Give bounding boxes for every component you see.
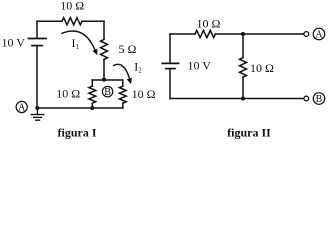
- wire middle resistor top lead: [242, 34, 244, 58]
- wire left 10 ohm top lead: [91, 80, 93, 86]
- svg-text:10 Ω: 10 Ω: [197, 17, 221, 31]
- svg-text:B: B: [316, 94, 323, 105]
- arrow I1 arc: [62, 31, 95, 50]
- wire left rail upper (figura II): [169, 34, 171, 63]
- resistor 10 ohm bottom-left (figura I): [89, 86, 96, 103]
- ground line 3: [36, 119, 40, 121]
- node junction dot top (figura II): [241, 32, 245, 36]
- node B circle (figura II): [313, 93, 325, 105]
- svg-text:10 Ω: 10 Ω: [56, 86, 80, 100]
- node junction dot sub-loop bottom: [90, 106, 94, 110]
- node A circle (figura I): [16, 101, 27, 112]
- node junction dot left-bottom (figura I): [35, 106, 39, 110]
- wire top left segment: [37, 20, 62, 22]
- resistor 10 ohm top (figura I): [62, 18, 82, 25]
- wire sub-loop top bar: [92, 79, 123, 81]
- ground stub: [36, 108, 38, 114]
- node A circle (figura II): [313, 28, 325, 40]
- svg-text:5 Ω: 5 Ω: [119, 42, 137, 56]
- wire middle resistor bottom lead: [242, 77, 244, 98]
- battery V2 short plate: [166, 68, 175, 70]
- svg-text:A: A: [315, 30, 323, 41]
- arrow I2 arc: [114, 64, 130, 78]
- svg-text:figura II: figura II: [227, 126, 271, 140]
- wire top right segment: [82, 20, 104, 22]
- resistor 10 ohm top (figura II): [195, 30, 215, 37]
- battery V1 long plate: [29, 38, 47, 40]
- terminal open circle bottom: [304, 96, 309, 101]
- arrowhead I2: [127, 78, 132, 85]
- svg-text:10 V: 10 V: [2, 36, 26, 50]
- wire bottom (figura I): [37, 107, 123, 109]
- resistor 10 ohm bottom-right (figura I): [119, 86, 126, 103]
- arrowhead I1: [93, 49, 98, 56]
- svg-text:10 V: 10 V: [188, 59, 212, 73]
- svg-text:B: B: [104, 87, 111, 98]
- wire left rail lower (figura II): [169, 69, 171, 99]
- ground line 2: [34, 116, 42, 118]
- svg-text:10 Ω: 10 Ω: [132, 87, 156, 101]
- node junction dot sub-loop top: [102, 78, 106, 82]
- terminal open circle top: [304, 32, 309, 37]
- wire top left segment (figura II): [170, 33, 195, 35]
- svg-text:A: A: [18, 102, 26, 113]
- wire 5 ohm to sub-loop: [103, 59, 105, 80]
- wire left 10 ohm bottom lead: [91, 103, 93, 108]
- wire right 10 ohm top lead: [122, 80, 124, 86]
- node junction dot bottom (figura II): [241, 97, 245, 101]
- ground line 1: [31, 114, 43, 116]
- wire right 10 ohm bottom lead: [122, 103, 124, 108]
- node B circle (figura I): [102, 86, 112, 96]
- battery V2 long plate: [162, 62, 178, 64]
- wire right rail upper: [103, 21, 105, 39]
- resistor 10 ohm middle (figura II): [240, 58, 247, 78]
- svg-text:10 Ω: 10 Ω: [250, 61, 274, 75]
- svg-text:figura I: figura I: [58, 126, 97, 140]
- battery V1 short plate: [32, 45, 42, 47]
- wire top-left vertical (figura I): [36, 21, 38, 38]
- resistor R 5 ohm vertical: [101, 39, 108, 59]
- wire left rail lower (figura I): [36, 46, 38, 108]
- svg-text:10 Ω: 10 Ω: [60, 0, 84, 13]
- wire top right segment (figura II): [215, 33, 303, 35]
- wire bottom (figura II): [170, 98, 304, 100]
